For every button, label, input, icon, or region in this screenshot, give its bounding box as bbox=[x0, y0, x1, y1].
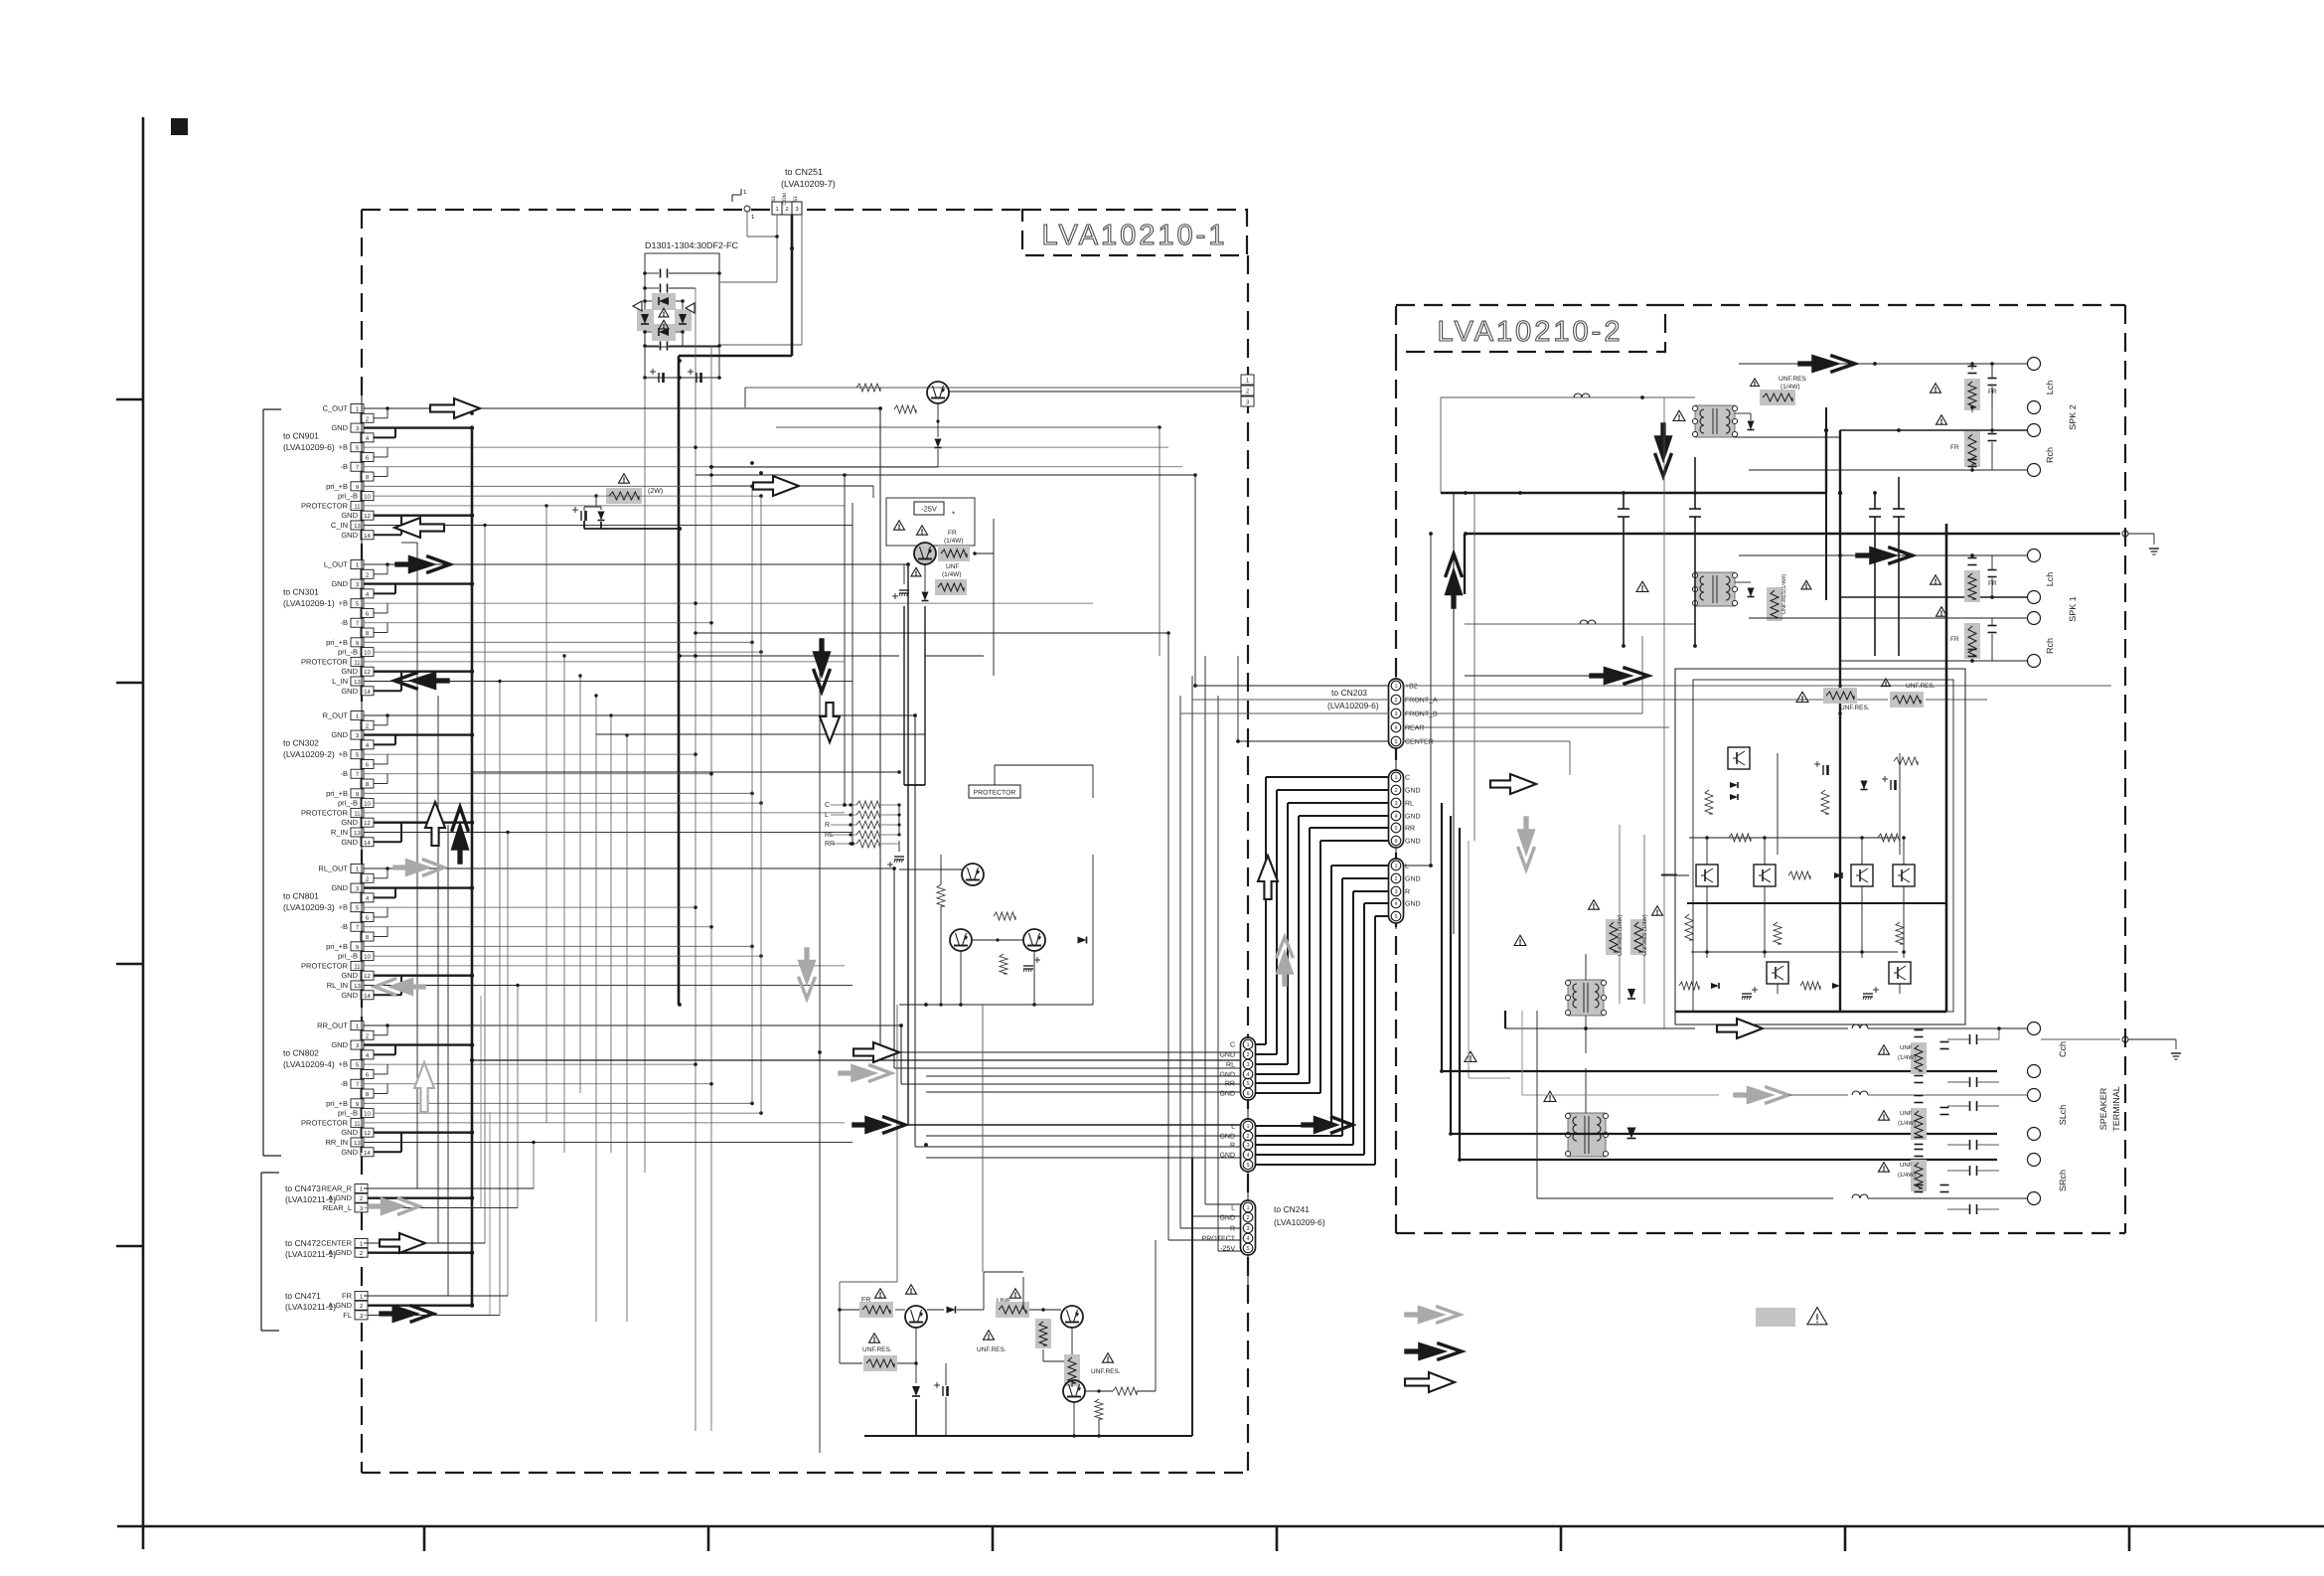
svg-text:REAR_R: REAR_R bbox=[322, 1184, 353, 1193]
svg-text:RR: RR bbox=[1405, 826, 1415, 833]
svg-text:1: 1 bbox=[1394, 864, 1397, 869]
svg-text:5: 5 bbox=[1394, 739, 1397, 745]
svg-text:*: * bbox=[952, 510, 955, 519]
svg-text:REAR: REAR bbox=[1405, 725, 1424, 732]
svg-text:GND: GND bbox=[341, 531, 358, 540]
svg-text:to CN473: to CN473 bbox=[285, 1183, 321, 1193]
svg-text:UNF: UNF bbox=[1900, 1162, 1913, 1169]
svg-text:-25V: -25V bbox=[921, 505, 937, 514]
svg-text:2: 2 bbox=[1394, 876, 1397, 882]
svg-text:pri_+B: pri_+B bbox=[326, 638, 348, 647]
svg-text:6: 6 bbox=[1246, 1091, 1249, 1097]
svg-text:PROTECTOR: PROTECTOR bbox=[301, 961, 349, 970]
svg-text:+B: +B bbox=[339, 903, 348, 912]
svg-text:3: 3 bbox=[1246, 1143, 1249, 1149]
svg-text:RL_OUT: RL_OUT bbox=[318, 865, 348, 873]
svg-text:pri_+B: pri_+B bbox=[326, 1099, 348, 1108]
svg-text:RR_OUT: RR_OUT bbox=[317, 1022, 348, 1030]
svg-text:11: 11 bbox=[354, 503, 361, 510]
svg-text:(1/4W): (1/4W) bbox=[944, 538, 964, 545]
svg-text:GND: GND bbox=[331, 423, 348, 432]
svg-text:UNF.RES.: UNF.RES. bbox=[1840, 705, 1870, 711]
svg-text:pri_-B: pri_-B bbox=[338, 492, 358, 501]
svg-text:to CN302: to CN302 bbox=[283, 737, 319, 747]
svg-text:RR: RR bbox=[825, 841, 835, 848]
svg-text:L: L bbox=[825, 812, 829, 819]
svg-text:GND: GND bbox=[341, 818, 358, 827]
svg-text:5: 5 bbox=[1246, 1081, 1249, 1087]
svg-text:+B: +B bbox=[339, 443, 348, 452]
svg-text:4: 4 bbox=[1394, 814, 1397, 820]
svg-text:GND: GND bbox=[1405, 901, 1421, 908]
svg-text:to CN801: to CN801 bbox=[283, 890, 319, 900]
svg-text:GND: GND bbox=[1219, 1052, 1235, 1059]
svg-text:(LVA10209-3): (LVA10209-3) bbox=[283, 902, 335, 912]
svg-text:(1/4W): (1/4W) bbox=[1898, 1120, 1916, 1127]
svg-text:PROTECTOR: PROTECTOR bbox=[301, 808, 349, 817]
svg-text:UNF.RES.: UNF.RES. bbox=[862, 1346, 892, 1353]
svg-text:2: 2 bbox=[1394, 788, 1397, 794]
svg-text:+B: +B bbox=[339, 1060, 348, 1069]
svg-text:(LVA10209-6): (LVA10209-6) bbox=[1327, 701, 1379, 710]
svg-text:D1301-1304:30DF2-FC: D1301-1304:30DF2-FC bbox=[645, 240, 739, 250]
svg-text:14: 14 bbox=[364, 533, 371, 540]
svg-text:UNF: UNF bbox=[1900, 1044, 1913, 1051]
svg-text:GND: GND bbox=[1405, 814, 1421, 821]
svg-text:GND: GND bbox=[341, 1148, 358, 1157]
svg-text:R: R bbox=[1230, 1143, 1235, 1150]
svg-text:FRONT_B: FRONT_B bbox=[1405, 711, 1438, 718]
svg-text:13: 13 bbox=[354, 983, 361, 990]
svg-text:(LVA10209-2): (LVA10209-2) bbox=[283, 749, 335, 759]
svg-text:R: R bbox=[825, 822, 830, 829]
svg-text:pri_-B: pri_-B bbox=[338, 648, 358, 657]
svg-text:(LVA10209-6): (LVA10209-6) bbox=[283, 442, 335, 452]
svg-text:13: 13 bbox=[354, 679, 361, 686]
svg-text:14: 14 bbox=[364, 1150, 371, 1157]
svg-text:C_OUT: C_OUT bbox=[323, 404, 349, 413]
svg-text:14: 14 bbox=[364, 840, 371, 847]
svg-text:RR: RR bbox=[1225, 1081, 1235, 1088]
svg-text:14: 14 bbox=[364, 993, 371, 1000]
svg-text:UNF.RES: UNF.RES bbox=[1779, 376, 1806, 383]
svg-text:4: 4 bbox=[1394, 725, 1397, 731]
svg-text:4: 4 bbox=[1246, 1072, 1249, 1078]
svg-text:12: 12 bbox=[364, 669, 371, 676]
svg-text:GND: GND bbox=[331, 1040, 348, 1049]
svg-text:L: L bbox=[1405, 864, 1409, 870]
svg-text:-B: -B bbox=[341, 462, 349, 471]
svg-text:GND: GND bbox=[331, 730, 348, 739]
svg-text:11: 11 bbox=[354, 810, 361, 817]
svg-text:10: 10 bbox=[364, 650, 371, 657]
svg-text:GND: GND bbox=[341, 971, 358, 980]
svg-text:REAR_L: REAR_L bbox=[323, 1203, 352, 1212]
svg-text:pri_+B: pri_+B bbox=[326, 789, 348, 798]
svg-text:UNF.RES.: UNF.RES. bbox=[977, 1346, 1007, 1353]
svg-text:(LVA10209-4): (LVA10209-4) bbox=[283, 1059, 335, 1069]
svg-text:(LVA10211-1): (LVA10211-1) bbox=[285, 1302, 336, 1312]
svg-text:UNF.RES(1/4W): UNF.RES(1/4W) bbox=[1782, 574, 1787, 614]
svg-text:Rch: Rch bbox=[2045, 638, 2055, 654]
svg-text:GND: GND bbox=[1405, 876, 1421, 883]
svg-text:L_OUT: L_OUT bbox=[324, 560, 349, 569]
svg-text:FRONT_A: FRONT_A bbox=[1405, 698, 1438, 705]
svg-text:3: 3 bbox=[1394, 801, 1397, 807]
svg-text:GND: GND bbox=[1219, 1091, 1235, 1098]
svg-text:(2W): (2W) bbox=[648, 487, 663, 495]
svg-text:12: 12 bbox=[364, 820, 371, 827]
svg-text:5: 5 bbox=[1394, 914, 1397, 920]
svg-text:(LVA10209-6): (LVA10209-6) bbox=[1274, 1217, 1325, 1227]
svg-text:RR_IN: RR_IN bbox=[325, 1138, 348, 1147]
svg-text:LVA10210-1: LVA10210-1 bbox=[1042, 220, 1228, 251]
svg-text:UNF.RES.: UNF.RES. bbox=[1906, 683, 1936, 690]
svg-text:3: 3 bbox=[1394, 711, 1397, 717]
svg-text:UNF: UNF bbox=[946, 563, 959, 570]
svg-text:PROTECTOR: PROTECTOR bbox=[301, 657, 349, 666]
svg-text:GND: GND bbox=[1219, 1134, 1235, 1141]
svg-text:12: 12 bbox=[364, 1130, 371, 1137]
svg-text:TERMINAL: TERMINAL bbox=[2111, 1086, 2121, 1132]
svg-text:12: 12 bbox=[364, 513, 371, 520]
svg-text:GND: GND bbox=[331, 883, 348, 892]
svg-text:GND: GND bbox=[1219, 1153, 1235, 1160]
svg-text:S1: S1 bbox=[771, 196, 777, 202]
svg-text:L: L bbox=[1231, 1205, 1235, 1212]
svg-text:10: 10 bbox=[364, 1111, 371, 1118]
svg-text:3: 3 bbox=[1394, 889, 1397, 895]
svg-text:Lch: Lch bbox=[2045, 381, 2055, 395]
svg-text:3: 3 bbox=[1246, 1226, 1249, 1232]
svg-text:pri_-B: pri_-B bbox=[338, 799, 358, 808]
svg-text:GND: GND bbox=[341, 1128, 358, 1137]
svg-text:SPK 2: SPK 2 bbox=[2068, 404, 2078, 430]
svg-text:5: 5 bbox=[1246, 1246, 1249, 1252]
svg-text:LVA10210-2: LVA10210-2 bbox=[1438, 316, 1624, 348]
svg-text:-B: -B bbox=[341, 1079, 349, 1088]
svg-text:(1/4W): (1/4W) bbox=[942, 571, 962, 578]
svg-text:pri_+B: pri_+B bbox=[326, 482, 348, 491]
svg-text:GND: GND bbox=[341, 838, 358, 847]
svg-text:2: 2 bbox=[1246, 1134, 1249, 1140]
svg-text:GND: GND bbox=[1219, 1072, 1235, 1079]
svg-text:14: 14 bbox=[364, 689, 371, 696]
svg-text:FR: FR bbox=[1950, 636, 1959, 643]
svg-text:FR: FR bbox=[1950, 444, 1959, 451]
svg-text:SRch: SRch bbox=[2058, 1170, 2068, 1191]
svg-text:5: 5 bbox=[1246, 1163, 1249, 1169]
svg-text:3: 3 bbox=[1246, 1062, 1249, 1068]
svg-text:to CN802: to CN802 bbox=[283, 1047, 319, 1057]
svg-text:13: 13 bbox=[354, 830, 361, 837]
svg-text:FL: FL bbox=[343, 1311, 352, 1320]
svg-text:(1/4W): (1/4W) bbox=[1898, 1054, 1916, 1061]
svg-text:(LVA10209-1): (LVA10209-1) bbox=[283, 598, 335, 608]
svg-text:SPK 1: SPK 1 bbox=[2068, 596, 2078, 622]
svg-text:11: 11 bbox=[354, 963, 361, 970]
svg-text:to CN301: to CN301 bbox=[283, 586, 319, 596]
svg-text:S1: S1 bbox=[793, 196, 799, 202]
svg-text:GND: GND bbox=[1405, 839, 1421, 846]
svg-text:GND: GND bbox=[331, 579, 348, 588]
svg-text:10: 10 bbox=[364, 494, 371, 501]
svg-text:C_IN: C_IN bbox=[331, 521, 348, 530]
svg-text:-B: -B bbox=[341, 922, 349, 931]
svg-text:1: 1 bbox=[1394, 775, 1397, 781]
svg-text:1: 1 bbox=[1246, 1124, 1249, 1130]
svg-text:2: 2 bbox=[1246, 1215, 1249, 1221]
svg-text:PROTECT: PROTECT bbox=[1202, 1236, 1236, 1243]
svg-text:1: 1 bbox=[1246, 1042, 1249, 1048]
svg-text:R: R bbox=[1230, 1226, 1235, 1233]
svg-text:COM: COM bbox=[782, 193, 788, 205]
svg-text:to CN901: to CN901 bbox=[283, 430, 319, 440]
svg-text:Cch: Cch bbox=[2058, 1041, 2068, 1057]
svg-text:1: 1 bbox=[1394, 684, 1397, 690]
svg-text:2: 2 bbox=[1246, 1052, 1249, 1058]
svg-text:GND: GND bbox=[341, 667, 358, 676]
svg-text:5: 5 bbox=[1394, 826, 1397, 832]
svg-text:C: C bbox=[1230, 1042, 1235, 1049]
svg-text:Lch: Lch bbox=[2045, 572, 2055, 587]
svg-text:+B2: +B2 bbox=[1405, 684, 1418, 691]
svg-text:to CN241: to CN241 bbox=[1274, 1204, 1310, 1214]
svg-text:C: C bbox=[1405, 775, 1410, 782]
svg-text:10: 10 bbox=[364, 801, 371, 808]
svg-text:4: 4 bbox=[1246, 1236, 1249, 1242]
svg-text:6: 6 bbox=[1394, 839, 1397, 845]
svg-text:1: 1 bbox=[1246, 1205, 1249, 1211]
svg-text:12: 12 bbox=[364, 973, 371, 980]
svg-text:pri_-B: pri_-B bbox=[338, 952, 358, 961]
svg-text:to CN471: to CN471 bbox=[285, 1291, 321, 1301]
svg-text:FR: FR bbox=[1988, 389, 1997, 395]
svg-text:(LVA10211-1): (LVA10211-1) bbox=[285, 1249, 336, 1259]
svg-text:UNF.RES (1/4W): UNF.RES (1/4W) bbox=[1618, 914, 1624, 956]
svg-text:FR: FR bbox=[342, 1292, 353, 1301]
svg-text:13: 13 bbox=[354, 523, 361, 530]
svg-text:L_IN: L_IN bbox=[332, 677, 348, 686]
svg-text:UNF: UNF bbox=[1900, 1110, 1913, 1117]
svg-text:2: 2 bbox=[1394, 698, 1397, 704]
svg-text:(1/4W): (1/4W) bbox=[1781, 384, 1800, 391]
svg-text:R_IN: R_IN bbox=[331, 828, 348, 837]
svg-text:UNF.RES.: UNF.RES. bbox=[1091, 1368, 1121, 1375]
svg-text:PROTECTOR: PROTECTOR bbox=[301, 1118, 349, 1127]
svg-text:to CN251: to CN251 bbox=[785, 167, 823, 177]
svg-text:GND: GND bbox=[1405, 788, 1421, 795]
svg-text:R: R bbox=[1405, 889, 1410, 896]
svg-text:PROTECTOR: PROTECTOR bbox=[974, 790, 1016, 797]
svg-text:SLch: SLch bbox=[2058, 1105, 2068, 1126]
svg-text:CENTER: CENTER bbox=[1405, 739, 1434, 746]
svg-text:to CN203: to CN203 bbox=[1331, 688, 1367, 698]
svg-text:pri_+B: pri_+B bbox=[326, 942, 348, 951]
svg-text:PROTECTOR: PROTECTOR bbox=[301, 501, 349, 510]
svg-text:4: 4 bbox=[1246, 1153, 1249, 1159]
svg-text:RL: RL bbox=[1226, 1062, 1235, 1069]
svg-text:4: 4 bbox=[1394, 901, 1397, 907]
svg-text:10: 10 bbox=[364, 954, 371, 961]
svg-text:-B: -B bbox=[341, 618, 349, 627]
svg-text:+B: +B bbox=[339, 750, 348, 759]
svg-text:FR: FR bbox=[948, 530, 957, 537]
svg-text:+B: +B bbox=[339, 599, 348, 608]
svg-text:pri_-B: pri_-B bbox=[338, 1109, 358, 1118]
svg-text:GND: GND bbox=[341, 687, 358, 696]
svg-text:RL: RL bbox=[1405, 801, 1414, 808]
svg-text:(1/4W): (1/4W) bbox=[1898, 1172, 1916, 1179]
svg-text:(LVA10209-7): (LVA10209-7) bbox=[781, 179, 836, 189]
svg-text:RL_IN: RL_IN bbox=[327, 981, 348, 990]
svg-text:Rch: Rch bbox=[2045, 447, 2055, 463]
svg-text:CENTER: CENTER bbox=[321, 1239, 352, 1248]
svg-text:UNF.RES (1/4W): UNF.RES (1/4W) bbox=[1642, 914, 1648, 956]
svg-text:GND: GND bbox=[341, 991, 358, 1000]
svg-text:to CN472: to CN472 bbox=[285, 1238, 321, 1248]
svg-text:RL: RL bbox=[825, 832, 834, 839]
svg-text:-B: -B bbox=[341, 769, 349, 778]
svg-text:L: L bbox=[1231, 1124, 1235, 1131]
svg-text:SPEAKER: SPEAKER bbox=[2098, 1087, 2108, 1130]
svg-text:13: 13 bbox=[354, 1140, 361, 1147]
svg-text:R_OUT: R_OUT bbox=[323, 711, 349, 720]
svg-text:FR: FR bbox=[1988, 580, 1997, 587]
svg-text:C: C bbox=[825, 802, 830, 809]
svg-text:(LVA10211-1): (LVA10211-1) bbox=[285, 1194, 336, 1204]
svg-text:GND: GND bbox=[341, 511, 358, 520]
svg-text:11: 11 bbox=[354, 659, 361, 666]
svg-text:11: 11 bbox=[354, 1120, 361, 1127]
